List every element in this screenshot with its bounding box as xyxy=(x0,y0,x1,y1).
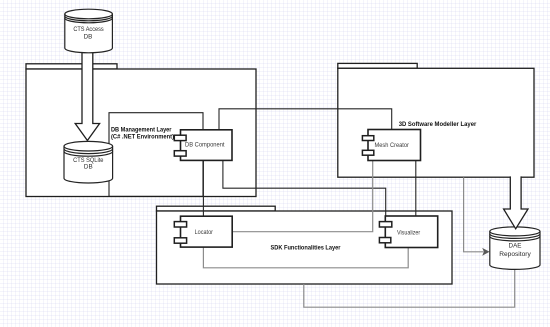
svg-text:DAE: DAE xyxy=(509,243,522,250)
svg-text:SDK Functionalities Layer: SDK Functionalities Layer xyxy=(271,245,341,252)
svg-text:(C# .NET Environment): (C# .NET Environment) xyxy=(111,133,174,140)
svg-text:Repository: Repository xyxy=(499,251,531,258)
svg-text:Locator: Locator xyxy=(195,229,213,236)
svg-text:DB Component: DB Component xyxy=(185,142,225,149)
svg-text:3D Software Modeller Layer: 3D Software Modeller Layer xyxy=(399,121,477,128)
svg-text:Mesh Creator: Mesh Creator xyxy=(375,142,409,149)
svg-text:DB: DB xyxy=(84,34,93,41)
svg-text:DB Management Layer: DB Management Layer xyxy=(111,126,172,133)
svg-text:Visualizer: Visualizer xyxy=(397,230,420,237)
svg-text:DB: DB xyxy=(84,164,93,171)
svg-text:CTS Access: CTS Access xyxy=(73,26,103,33)
